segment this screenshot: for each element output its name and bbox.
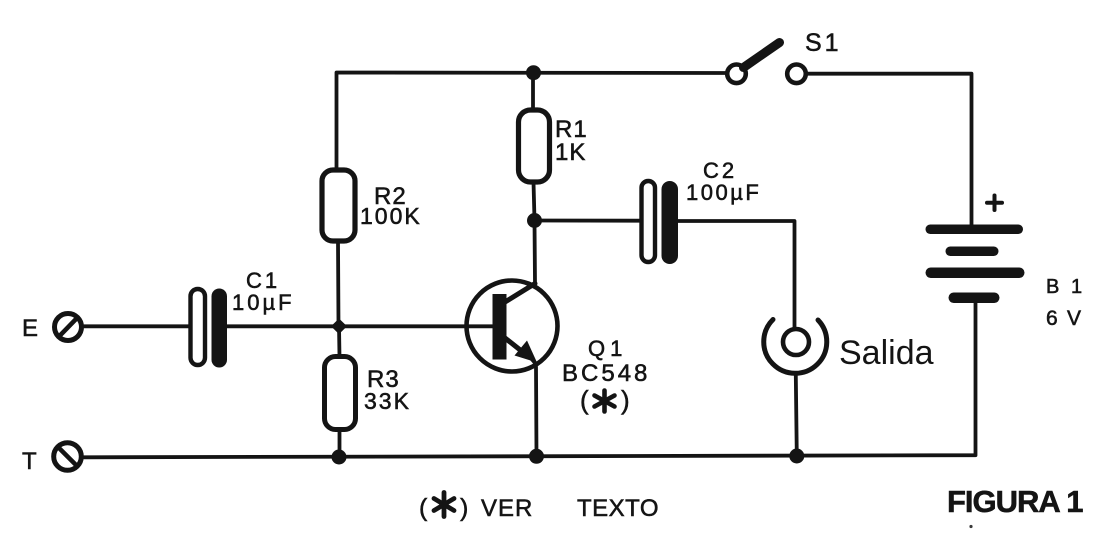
wire R2 to node A: [336, 241, 340, 326]
svg-text:10µF: 10µF: [232, 290, 295, 315]
node R3 bottom junction dot: [332, 450, 347, 465]
svg-text:Q1: Q1: [588, 336, 627, 361]
terminal E: [55, 314, 82, 341]
label (star) under Q1: [580, 385, 630, 415]
label C1 10uF: [232, 268, 295, 315]
capacitor C1: [191, 289, 228, 368]
wire collector to C2: [535, 219, 642, 223]
battery plus sign: [987, 196, 1002, 211]
label R1 1K: [555, 116, 588, 166]
node top junction dot: [526, 65, 541, 80]
battery B1: [926, 225, 1025, 304]
svg-text:100µF: 100µF: [686, 180, 761, 205]
svg-text:V: V: [1067, 307, 1081, 330]
label Q1 BC548: [562, 336, 650, 387]
node collector junction dot: [527, 213, 542, 228]
label (star) VER TEXTO: [419, 494, 659, 522]
node jack bottom junction dot: [789, 449, 804, 464]
svg-text:): ): [460, 494, 468, 522]
transistor Q1: [467, 221, 558, 456]
terminal T: [54, 443, 82, 471]
svg-text:(: (: [419, 494, 428, 522]
svg-text:T: T: [22, 448, 37, 475]
svg-text:33K: 33K: [364, 388, 411, 414]
svg-text:Salida: Salida: [839, 334, 934, 372]
resistor R3: [337, 326, 341, 357]
svg-text:FIGURA 1: FIGURA 1: [947, 484, 1083, 519]
wire battery to bottom rail: [84, 303, 976, 457]
switch S1: [727, 43, 806, 84]
svg-text:6: 6: [1046, 307, 1058, 330]
wire top rail left segment: [337, 73, 727, 171]
label C2 100uF: [686, 158, 761, 205]
output jack Salida: [764, 320, 827, 457]
wire switch to battery top: [807, 74, 972, 228]
svg-text:E: E: [22, 315, 38, 342]
svg-text:1K: 1K: [555, 139, 586, 166]
svg-text:BC548: BC548: [562, 360, 650, 387]
svg-text:TEXTO: TEXTO: [577, 495, 659, 522]
svg-text:S1: S1: [805, 29, 842, 57]
label R2 100K: [360, 183, 422, 229]
wire C2 to output jack: [678, 221, 795, 329]
capacitor C2: [642, 181, 679, 264]
node A junction dot: [331, 319, 347, 335]
svg-text:VER: VER: [481, 495, 533, 522]
wire C1 to base: [227, 324, 493, 328]
svg-text:B: B: [1046, 276, 1059, 298]
wire E to C1: [84, 324, 191, 328]
label R3 33K: [364, 366, 411, 414]
resistor R2: [322, 170, 355, 241]
resistor R1: [531, 73, 535, 111]
label B1 6V: [1046, 276, 1082, 330]
svg-text:): ): [621, 385, 630, 415]
svg-text:(: (: [580, 385, 589, 415]
node emitter bottom junction dot: [529, 449, 544, 464]
svg-text:100K: 100K: [360, 203, 422, 229]
svg-text:1: 1: [1071, 276, 1082, 298]
